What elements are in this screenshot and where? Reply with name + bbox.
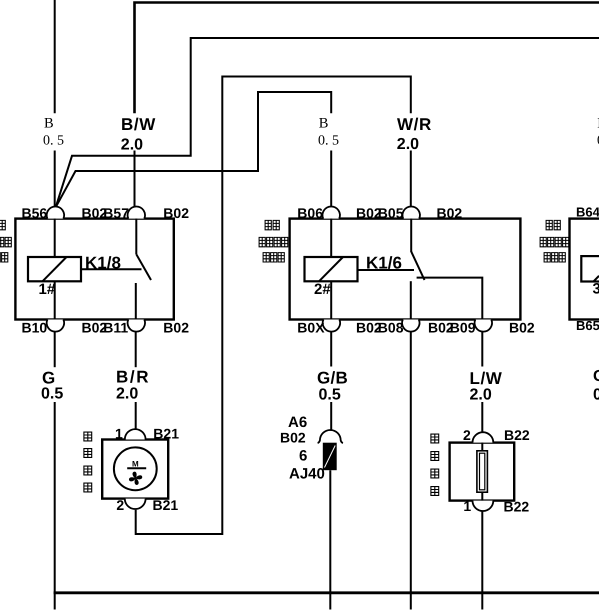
wire: B feed vertical top: [54, 0, 56, 113]
pin bump B11: [128, 320, 145, 332]
switch blade K1/6: [411, 252, 424, 281]
svg-text:B21: B21: [153, 497, 179, 513]
coil K1/6: [305, 257, 358, 281]
switch contact from B57: [135, 219, 137, 255]
wire coil top K1/6: [330, 219, 332, 257]
relay1 Chinese label (clipped at left edge): [0, 220, 11, 262]
fan Chinese label 冷却风扇 vertical: [84, 432, 92, 492]
wire coil top K1/8: [54, 219, 56, 257]
svg-text:B11: B11: [103, 319, 128, 335]
svg-text:B: B: [319, 116, 329, 132]
svg-text:B02: B02: [280, 429, 306, 445]
wire: second top bus to B56: [56, 38, 599, 206]
resistor element inner: [480, 453, 485, 490]
wire B/R column: [135, 332, 137, 368]
svg-text:B09: B09: [450, 319, 476, 335]
svg-text:B21: B21: [153, 426, 179, 442]
ground bus: [54, 591, 599, 594]
svg-text:L/W: L/W: [470, 369, 503, 388]
svg-text:B22: B22: [504, 498, 530, 514]
resistor element outer: [477, 451, 488, 492]
svg-text:0.5: 0.5: [319, 387, 341, 404]
svg-text:B64: B64: [576, 205, 599, 220]
wire B08 column down: [410, 331, 412, 610]
pin bump B10: [47, 320, 64, 332]
svg-text:3#: 3#: [593, 281, 599, 298]
switch contact from B05: [410, 219, 412, 252]
wire into resistor element: [481, 443, 483, 451]
svg-text:B: B: [44, 116, 54, 132]
svg-text:B02: B02: [509, 319, 535, 335]
fan pin bump 2: [125, 499, 146, 509]
pin bump B06: [323, 206, 340, 218]
svg-text:B02: B02: [163, 319, 189, 335]
pin bump B09: [475, 320, 492, 332]
link line K1/6: [358, 269, 415, 271]
fan pin bump 1: [125, 429, 146, 439]
wire: fan pin2 loop up to W/R branch: [136, 77, 411, 535]
wire below resistor to bus: [481, 511, 483, 610]
wire below resistor element: [481, 492, 483, 500]
relay3 Chinese label 高速/冷凝风扇/继电器: [540, 220, 569, 262]
pin bump B57: [128, 206, 145, 218]
relay2 Chinese label 高速/散热风扇/继电器: [259, 220, 288, 262]
svg-text:B57: B57: [103, 205, 129, 221]
relay K1/7 box (clipped right): [570, 219, 599, 320]
svg-text:G: G: [593, 368, 599, 385]
svg-text:B05: B05: [378, 205, 404, 221]
svg-text:2.0: 2.0: [121, 137, 143, 154]
svg-text:6: 6: [299, 448, 307, 465]
relay K1/6 box: [290, 219, 521, 320]
switch blade K1/8: [136, 254, 151, 280]
wire: B/W top bus: [135, 3, 599, 114]
coil K1/8: [28, 257, 81, 281]
svg-text:2: 2: [463, 427, 471, 443]
switch contact to B08: [410, 281, 412, 319]
svg-text:M: M: [132, 459, 139, 468]
svg-text:2.0: 2.0: [116, 386, 138, 403]
wire G/B column: [330, 331, 332, 367]
coil K1/7 (clipped): [581, 256, 599, 281]
svg-text:0.5: 0.5: [41, 386, 63, 403]
wire: branch to B06 and B56 diagonal: [56, 92, 331, 206]
svg-text:W/R: W/R: [397, 115, 432, 134]
svg-text:B65: B65: [576, 318, 599, 333]
svg-text:1: 1: [463, 498, 471, 514]
svg-text:2#: 2#: [314, 281, 331, 298]
svg-text:B22: B22: [504, 427, 530, 443]
svg-text:1: 1: [115, 426, 123, 442]
svg-text:B/R: B/R: [116, 367, 150, 386]
resistor Chinese label 调节电阻 vertical: [431, 434, 439, 495]
pin bump B05: [403, 206, 420, 218]
svg-text:B02: B02: [163, 205, 189, 221]
wire below AJ40 to bus: [329, 470, 331, 609]
motor underline: [127, 467, 146, 469]
svg-text:B02: B02: [437, 205, 463, 221]
svg-text:2.0: 2.0: [397, 136, 419, 153]
connector AJ40 plug body: [323, 443, 337, 471]
svg-text:B/W: B/W: [121, 115, 156, 134]
svg-text:0. 5: 0. 5: [318, 134, 339, 149]
link line K1/8: [81, 268, 142, 270]
pin bump B08: [402, 320, 419, 332]
svg-text:1#: 1#: [39, 281, 56, 298]
wire L/W column: [481, 331, 483, 367]
svg-text:2.0: 2.0: [470, 387, 492, 404]
svg-text:B06: B06: [297, 205, 323, 221]
resistor pin bump 1: [473, 501, 494, 511]
svg-text:B56: B56: [22, 205, 48, 221]
svg-text:B08: B08: [378, 319, 404, 335]
resistor pin bump 2: [473, 432, 494, 442]
svg-text:B10: B10: [22, 319, 48, 335]
svg-text:0. 5: 0. 5: [43, 134, 64, 149]
pin bump B0X: [323, 320, 340, 332]
wire coil bottom K1/6: [330, 281, 332, 319]
motor circle: [114, 447, 157, 490]
svg-text:G/B: G/B: [317, 369, 348, 388]
wire coil bottom K1/8: [54, 281, 56, 319]
wire blade to B09: [417, 278, 483, 320]
svg-text:B0X: B0X: [297, 319, 325, 335]
connector AJ40 socket arc: [318, 430, 343, 443]
relay K1/8 box: [15, 219, 173, 320]
switch contact to B11: [135, 283, 137, 320]
fan motor box: [102, 440, 168, 499]
svg-text:2: 2: [116, 497, 124, 513]
svg-text:AJ40: AJ40: [289, 465, 325, 482]
pin bump B56: [47, 206, 64, 218]
svg-text:0: 0: [593, 387, 599, 404]
resistor box: [450, 443, 515, 501]
wire G column: [54, 332, 56, 368]
motor pinwheel: [128, 471, 142, 485]
